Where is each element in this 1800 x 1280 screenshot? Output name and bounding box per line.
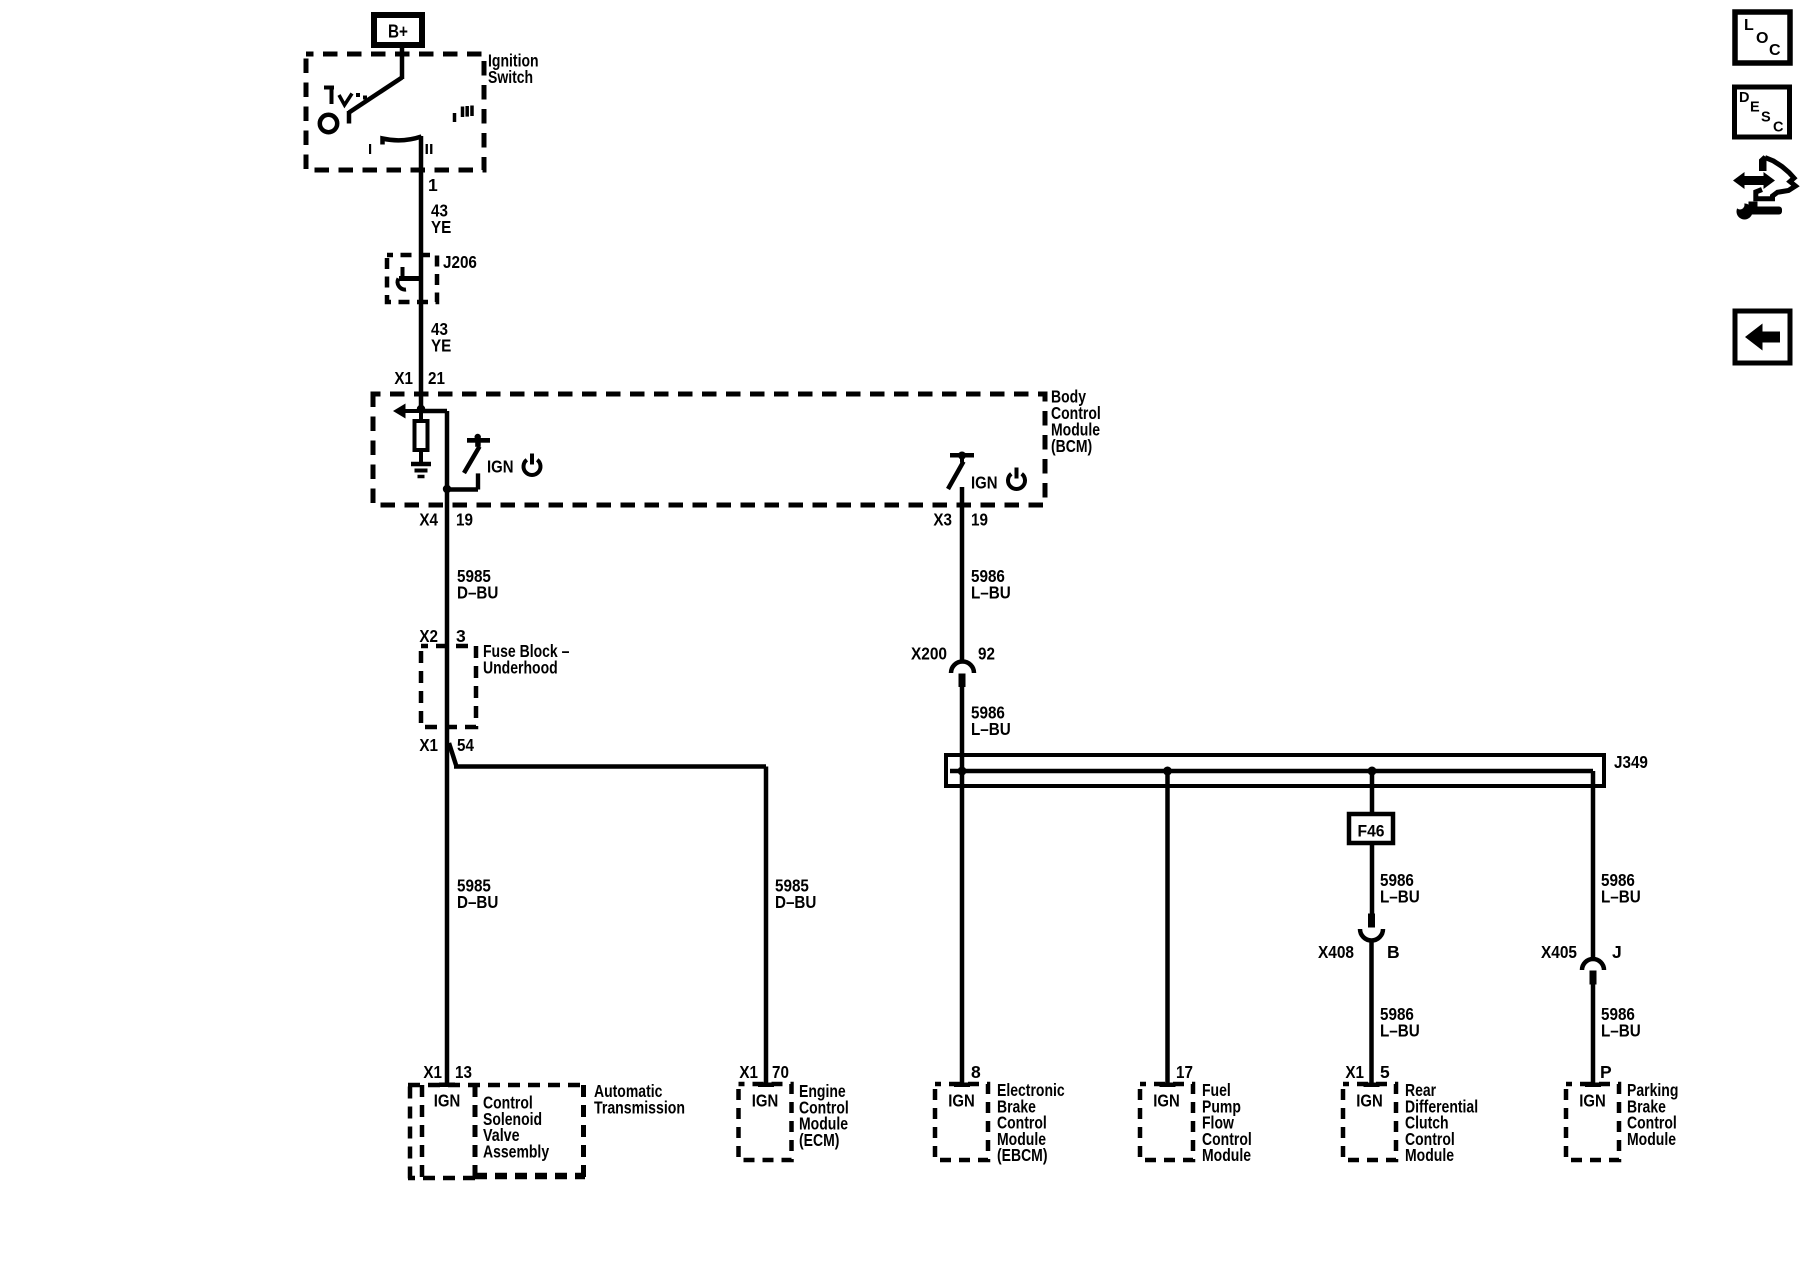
svg-text:II: II xyxy=(425,141,434,158)
svg-text:B+: B+ xyxy=(388,22,408,42)
svg-text:C: C xyxy=(1773,120,1784,136)
svg-text:X4: X4 xyxy=(419,510,438,530)
svg-text:Module: Module xyxy=(1202,1145,1251,1165)
power feed terminal B+ xyxy=(374,15,422,45)
svg-text:I: I xyxy=(368,141,372,158)
wire X200 to J349 and EBCM xyxy=(960,687,965,1084)
svg-text:(ECM): (ECM) xyxy=(799,1130,839,1150)
svg-text:Assembly: Assembly xyxy=(483,1141,549,1161)
control solenoid valve assembly box xyxy=(475,1173,585,1180)
svg-text:Module: Module xyxy=(1405,1145,1454,1165)
service icon wrench xyxy=(1737,204,1753,220)
pin stub automatic transmission xyxy=(439,1083,455,1088)
fuse F46 box xyxy=(1349,814,1393,843)
service icon double arrow xyxy=(1733,172,1775,189)
IGN pin box (automatic transmission) xyxy=(420,1085,425,1179)
svg-text:X1: X1 xyxy=(394,368,413,388)
svg-text:70: 70 xyxy=(772,1062,789,1082)
node junction J349/F46 xyxy=(1368,767,1377,776)
svg-text:(EBCM): (EBCM) xyxy=(997,1145,1048,1165)
svg-text:Switch: Switch xyxy=(488,67,533,87)
wire junction to IGN switch (BCM left) xyxy=(419,409,447,414)
svg-text:L: L xyxy=(1744,17,1754,34)
wire switch bottom hook xyxy=(447,487,478,491)
ignition switch lever xyxy=(349,78,402,113)
svg-text:21: 21 xyxy=(428,368,445,388)
svg-text:IGN: IGN xyxy=(752,1091,779,1111)
wire J349 to fuse F46 xyxy=(1370,771,1375,814)
svg-text:X408: X408 xyxy=(1318,942,1354,962)
ground (BCM internal) xyxy=(411,462,431,467)
switch IGN (BCM left) xyxy=(464,447,480,474)
LOC button xyxy=(1735,12,1790,63)
svg-text:X405: X405 xyxy=(1541,942,1577,962)
pin stub ECM xyxy=(758,1083,774,1088)
svg-text:YE: YE xyxy=(431,335,451,355)
rear differential clutch control module box xyxy=(1343,1084,1396,1160)
body control module BCM box xyxy=(373,394,1045,505)
splice pack J349 box xyxy=(946,755,1604,786)
ignition switch box xyxy=(306,54,484,170)
pin stub rear diff xyxy=(1364,1083,1380,1088)
ignition switch ACC position mark xyxy=(324,86,334,90)
electronic brake control module box xyxy=(935,1084,988,1160)
svg-text:IGN: IGN xyxy=(1579,1091,1606,1111)
svg-text:8: 8 xyxy=(971,1062,981,1082)
node junction at BCM pin 21 xyxy=(417,405,425,413)
splice J206 box xyxy=(387,255,437,302)
svg-text:YE: YE xyxy=(431,217,451,237)
power symbol (BCM right) xyxy=(1008,474,1025,489)
automatic transmission box xyxy=(408,1083,585,1088)
resistor (BCM internal) xyxy=(419,409,423,421)
svg-text:IGN: IGN xyxy=(1153,1091,1180,1111)
svg-text:IGN: IGN xyxy=(434,1091,461,1111)
svg-text:Transmission: Transmission xyxy=(594,1097,685,1117)
arrow to other circuits xyxy=(403,409,421,413)
svg-text:J349: J349 xyxy=(1614,752,1648,772)
fuel pump flow control module box xyxy=(1140,1084,1193,1160)
svg-text:(BCM): (BCM) xyxy=(1051,436,1092,456)
svg-text:L–BU: L–BU xyxy=(971,719,1011,739)
svg-text:92: 92 xyxy=(978,644,995,664)
power symbol (BCM left) xyxy=(524,460,541,475)
wire ignition switch output pin 1 xyxy=(419,136,424,411)
svg-text:13: 13 xyxy=(455,1062,472,1082)
svg-text:D–BU: D–BU xyxy=(775,892,816,912)
svg-text:Module: Module xyxy=(1627,1129,1676,1149)
svg-text:5: 5 xyxy=(1380,1062,1390,1082)
inline connector X200 xyxy=(951,662,974,674)
node junction J349/fuel pump xyxy=(1163,767,1172,776)
inline connector X405 xyxy=(1582,959,1604,970)
svg-text:X3: X3 xyxy=(933,510,952,530)
node junction J349/EBCM xyxy=(958,767,967,776)
inline connector X408 xyxy=(1368,914,1375,928)
back button xyxy=(1735,311,1790,363)
svg-text:B: B xyxy=(1387,942,1400,962)
pin stub fuel pump xyxy=(1160,1083,1176,1088)
wire X408 to rear diff module xyxy=(1369,941,1374,1085)
svg-text:C: C xyxy=(1769,42,1781,59)
svg-text:D–BU: D–BU xyxy=(457,582,498,602)
fuse block underhood box xyxy=(421,646,476,727)
svg-text:Underhood: Underhood xyxy=(483,657,558,677)
wire J349 to X405 xyxy=(1591,771,1596,960)
svg-text:J206: J206 xyxy=(443,252,477,272)
pin stub parking brake xyxy=(1585,1083,1601,1088)
svg-text:S: S xyxy=(1761,110,1771,126)
ignition switch pivot xyxy=(320,115,337,132)
wire X405 to parking brake module xyxy=(1591,985,1596,1085)
svg-text:1: 1 xyxy=(428,175,438,195)
pin stub EBCM xyxy=(954,1083,970,1088)
engine control module box xyxy=(739,1084,792,1160)
svg-text:19: 19 xyxy=(456,510,473,530)
svg-text:F46: F46 xyxy=(1358,823,1385,841)
svg-text:X1: X1 xyxy=(419,735,438,755)
parking brake control module box xyxy=(1566,1084,1619,1160)
svg-text:IGN: IGN xyxy=(948,1091,975,1111)
svg-text:E: E xyxy=(1750,100,1760,116)
node junction below IGN switch xyxy=(443,485,451,493)
wire B+ to ignition switch xyxy=(400,45,405,79)
wire J349 to fuel pump module xyxy=(1165,771,1170,1084)
svg-text:D: D xyxy=(1739,90,1749,106)
wire BCM right down to X3 pin 19 xyxy=(960,487,965,661)
svg-text:19: 19 xyxy=(971,510,988,530)
svg-text:IGN: IGN xyxy=(487,457,514,477)
svg-text:L–BU: L–BU xyxy=(971,582,1011,602)
ignition switch position III marks xyxy=(453,113,457,122)
service icon glove outline xyxy=(1759,155,1767,171)
svg-text:3: 3 xyxy=(456,626,466,646)
ignition switch contact arc xyxy=(383,137,422,145)
svg-text:17: 17 xyxy=(1176,1062,1193,1082)
DESC button xyxy=(1735,87,1790,137)
svg-text:L–BU: L–BU xyxy=(1601,1020,1641,1040)
svg-text:IGN: IGN xyxy=(1356,1091,1383,1111)
splice J206 symbol xyxy=(401,267,405,279)
svg-text:IGN: IGN xyxy=(971,473,998,493)
svg-text:54: 54 xyxy=(457,735,474,755)
svg-text:L–BU: L–BU xyxy=(1601,886,1641,906)
wire F46 to X408 xyxy=(1370,843,1375,914)
svg-text:X1: X1 xyxy=(423,1062,442,1082)
svg-text:X1: X1 xyxy=(1345,1062,1364,1082)
svg-text:X200: X200 xyxy=(911,644,947,664)
svg-text:O: O xyxy=(1756,30,1768,47)
switch IGN (BCM right) xyxy=(950,453,974,458)
svg-text:L–BU: L–BU xyxy=(1380,886,1420,906)
wire branch to ECM xyxy=(449,743,456,765)
svg-text:J: J xyxy=(1612,942,1622,962)
svg-text:P: P xyxy=(1600,1062,1612,1082)
bus wire J349 xyxy=(950,769,1593,774)
svg-text:D–BU: D–BU xyxy=(457,892,498,912)
svg-text:X1: X1 xyxy=(739,1062,758,1082)
wire BCM left vertical down to X4 pin 19 xyxy=(445,411,450,1084)
svg-text:L–BU: L–BU xyxy=(1380,1020,1420,1040)
svg-text:X2: X2 xyxy=(419,626,438,646)
